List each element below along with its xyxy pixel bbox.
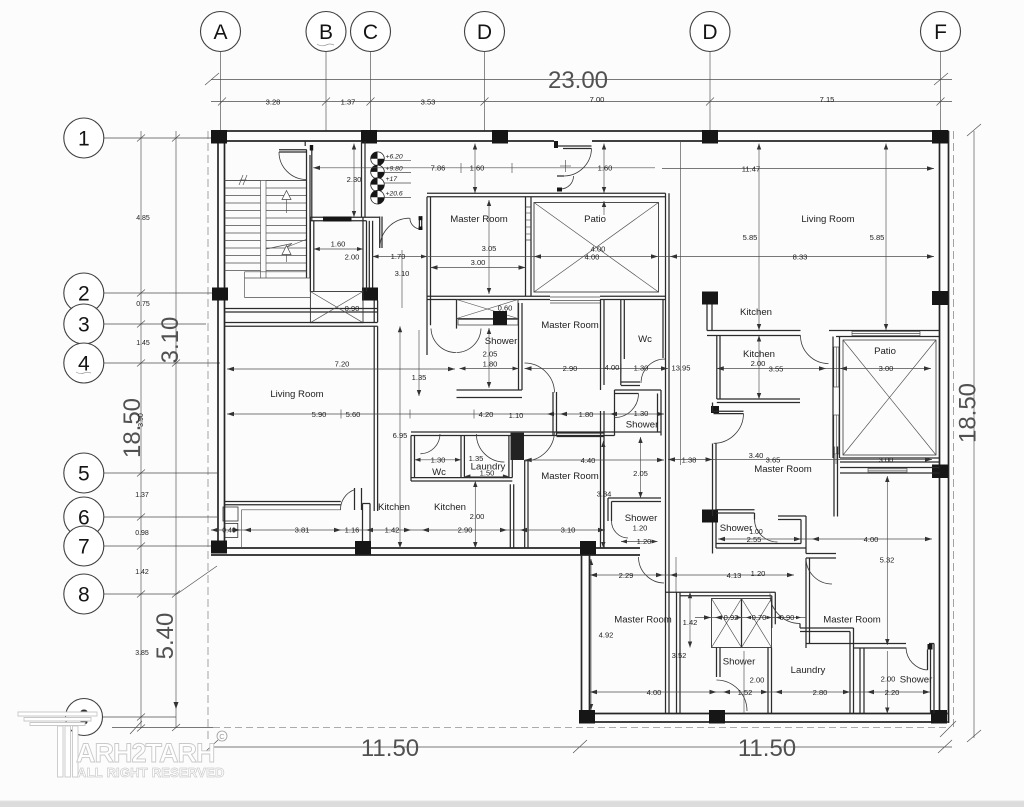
svg-text:11.50: 11.50 [361,735,419,762]
svg-text:Shower: Shower [900,675,933,686]
svg-text:+9.80: +9.80 [386,166,403,173]
svg-text:Shower: Shower [723,657,756,668]
dim 3.05 vertical master2 [482,200,497,294]
diagonal break line near row 8 [177,566,217,594]
living room bottom wall [225,502,341,505]
dim 7.20 [227,360,455,372]
svg-text:1.35: 1.35 [469,454,484,463]
laundry2 door arc [770,594,800,624]
grid bubble F at x=940.5 [921,12,961,132]
shower top-right room (614-661) [615,390,662,436]
svg-text:1.60: 1.60 [331,240,346,249]
svg-text:Wc: Wc [638,334,652,345]
svg-text:2: 2 [78,283,90,306]
svg-text:18.50: 18.50 [119,398,146,458]
grid bubble C at x=370.5 [351,12,391,132]
svg-text:Patio: Patio [874,346,896,357]
svg-text:4.85: 4.85 [136,215,150,222]
dim 2.00/3.55 kitchen right-unit [717,359,931,374]
svg-text:1.42: 1.42 [385,526,400,535]
shaft side wall right [369,221,377,322]
grid bubble 3 at y=324 [64,304,206,344]
svg-text:1.45: 1.45 [136,340,150,347]
stair treads right flight [266,181,307,271]
column D2-1 [702,130,718,144]
elevator door sill [323,217,352,222]
dim 1.42 vertical [683,592,698,647]
hall/stair separation wall x=363 [362,141,366,217]
column C1 [361,130,377,144]
dim 5.32 vertical [880,476,895,645]
svg-text:5.32: 5.32 [880,556,895,565]
svg-text:1.20: 1.20 [633,523,648,532]
patio2 bottom walls with window [840,458,940,473]
svg-text:3.65: 3.65 [766,455,781,464]
dim 1.30 wc left [415,455,462,464]
shower3 (right) walls [860,644,934,714]
exterior left wall [218,131,225,547]
svg-text:3.34: 3.34 [597,490,612,499]
svg-text:5.60: 5.60 [346,410,361,419]
svg-text:D: D [477,21,492,44]
grid bubble 8 at y=594 [64,574,177,614]
left dim values 1.37 / 0.98 / 1.42 / 3.85 [135,492,149,657]
dim 2.30 vertical [347,144,362,218]
dim chain 0.92/0.70/0.90 y=617.5 [695,613,806,622]
dim 3.52 vertical [672,557,687,660]
svg-text:Master Room: Master Room [614,615,672,626]
stair stringers [225,181,307,279]
stair treads left flight [225,181,261,271]
svg-text:3.55: 3.55 [769,365,784,374]
svg-text:Master Room: Master Room [541,320,599,331]
svg-text:2.05: 2.05 [633,469,648,478]
svg-text:2.55: 2.55 [747,535,762,544]
dim chain y=368 master3: 2.90/4.00/1.30/13.95 [525,363,691,373]
entry second leaf arc [557,160,574,192]
svg-text:Shower: Shower [720,523,753,534]
svg-text:1.70: 1.70 [391,252,406,261]
svg-text:3.10: 3.10 [395,269,410,278]
dim 4.92 vertical [589,559,614,710]
svg-text:7.00: 7.00 [590,95,605,104]
dim 1.35 vertical hall [412,330,427,396]
svg-text:Kitchen: Kitchen [378,502,410,513]
grid bubble 1 at y=138 [64,118,218,158]
dim 2.00 vertical kitchen right-unit [757,336,761,400]
dashed column axis line x=208 [207,131,209,743]
dim 2.00 vertical kitchen2 [470,481,485,548]
svg-text:7.15: 7.15 [820,95,835,104]
column FB [931,710,947,724]
svg-text:ARH2TARH: ARH2TARH [76,738,215,768]
svg-text:4.00: 4.00 [585,252,600,261]
dim 1.70 hall [373,252,427,261]
grid bubble 7 at y=546 [64,526,211,566]
shower-bottom room (608-661) [608,498,661,538]
master-bottom top wall [557,433,605,437]
master room 2 top wall [427,193,666,196]
lower-left master right wall [677,592,681,713]
svg-text:Wc: Wc [432,467,446,478]
left dim values 4.85 / 0.75 / 1.45 [136,215,150,347]
laundry2 right wall [850,628,854,714]
svg-text:1.37: 1.37 [135,492,149,499]
stair door leaf and swing [279,150,307,180]
patio2 top wall with window [836,331,940,337]
svg-text:2.00: 2.00 [345,253,360,262]
stair direction zigzag [266,240,306,250]
svg-text:4.00: 4.00 [605,363,620,372]
shower2 door arc [717,680,748,711]
double door arcs into shower corridor [431,329,481,353]
svg-text:4.40: 4.40 [581,456,596,465]
kitchen right-unit top wall [707,331,836,336]
svg-text:1.30: 1.30 [431,455,446,464]
dim 5.85 vertical pair (living room) [743,144,889,331]
column D1 [492,130,508,144]
svg-text:Living Room: Living Room [270,389,323,400]
shower-top room walls (456-521) [457,300,523,398]
column LL [580,541,596,555]
dim 6.95 vertical [393,326,408,548]
window in patio left wall [526,207,532,240]
svg-text:1.60: 1.60 [598,164,613,173]
patio2 X box [843,340,936,455]
svg-text:1: 1 [78,128,90,151]
svg-text:Kitchen: Kitchen [740,307,772,318]
svg-text:1.35: 1.35 [412,373,427,382]
svg-text:1.50: 1.50 [480,468,495,477]
master room 2 bottom wall [427,296,666,299]
svg-text:2.00: 2.00 [470,512,485,521]
svg-text:1.38: 1.38 [682,455,697,464]
entry door leaf [563,146,592,149]
stair right wall [307,150,311,278]
annotation under bubble B [317,44,334,46]
svg-text:3.10: 3.10 [561,526,576,535]
master-right left wall [806,558,810,648]
bottom gray bar [0,801,1024,807]
svg-text:7.86: 7.86 [431,164,446,173]
dim 1.60 vertical at x=604 [602,144,606,216]
annotation under bubble 4 [76,372,91,374]
svg-text:Master Room: Master Room [450,214,508,225]
svg-text:0.75: 0.75 [136,301,150,308]
kitchen2 right wall [510,484,513,548]
master-bottom right wall [601,411,605,548]
svg-text:ALL RIGHT RESERVED: ALL RIGHT RESERVED [77,765,225,780]
column D-mid [702,510,718,523]
dim 1.35/1.50 laundry left [464,454,509,478]
svg-text:4.13: 4.13 [727,571,742,580]
svg-text:2.00: 2.00 [751,359,766,368]
dim chain 4.00/1.52/2.80/2.20 y=692 [590,688,930,697]
dim 3.00 horizontal master2 [431,258,526,270]
column A1 [211,130,227,144]
svg-text:0.70: 0.70 [752,613,767,622]
svg-text:+6.20: +6.20 [386,154,403,161]
svg-text:3.52: 3.52 [672,651,687,660]
svg-text:2.05: 2.05 [483,350,498,359]
dim 3.40/3.65/1.38/3.00 line y=459 [668,451,932,464]
svg-text:1.30: 1.30 [634,409,649,418]
entry door swing arc [564,149,592,177]
lower wing left exterior wall [582,548,590,722]
column F1 [932,130,948,144]
kitchen-left interior lines [242,510,341,548]
grid bubble 9 (behind logo) [66,699,177,736]
shower mid-right room walls [713,523,837,559]
bottom dashed setback line [112,721,956,737]
lower wing bottom exterior wall [582,714,948,723]
svg-text:B: B [319,21,333,44]
dim 1.20/1.20 shower bottom-left [621,523,658,546]
svg-text:8.33: 8.33 [793,252,808,261]
column A7 [211,541,227,554]
dim 1.60 elevator [314,240,363,251]
svg-text:7.20: 7.20 [335,360,350,369]
column F-mid [932,465,948,479]
dim 2.00 vertical shower3 [881,651,896,714]
svg-text:F: F [934,21,947,44]
svg-text:3.81: 3.81 [295,526,310,535]
dim 3.34 vertical [597,441,612,548]
dim chain row7 y=530 [211,526,605,535]
dim 2.05/1.80 shower top-left [460,328,519,388]
patio 1 box with X [534,203,659,293]
svg-text:5.85: 5.85 [870,233,885,242]
grid bubble 4 at y=363 [64,343,220,383]
master right-top left wall + door [713,403,744,517]
shower corridor pillar (dark) [511,433,525,460]
master-bottom doorway leaves + arcs [525,363,557,461]
stair up arrow 2 [282,246,291,263]
patio door sill [550,297,600,303]
dim 4.00/8.33 line y=256 [428,245,934,262]
closet with X and black square [457,300,519,326]
stair break marks [239,175,247,185]
dimension chain 3.28/1.37/3.53/7.00/7.15 [211,95,952,107]
wc top room walls [621,300,665,386]
dim 3.10 hall vertical [395,250,410,308]
svg-text:C: C [219,732,225,741]
svg-text:0.92: 0.92 [724,613,739,622]
svg-text:Shower: Shower [626,420,659,431]
svg-text:C: C [363,21,378,44]
grid bubble 5 at y=473 [64,453,217,493]
svg-text:Master Room: Master Room [541,471,599,482]
corner black stub [711,406,719,413]
wall between master right-top and patio2 [834,447,838,517]
svg-text:1.42: 1.42 [135,569,149,576]
svg-text:1.20: 1.20 [751,569,766,578]
svg-text:2.80: 2.80 [813,688,828,697]
master-right door leaf + arc [906,648,931,671]
grid bubble D at x=710 [690,12,730,132]
master room 2 right wall / patio left wall [526,197,532,297]
svg-text:11.47: 11.47 [742,164,760,173]
dim line 11.47 [662,164,934,173]
kitchen counter boxes [223,507,238,537]
svg-text:4.00: 4.00 [647,688,662,697]
svg-text:+17: +17 [386,176,398,183]
column DB [709,710,725,724]
stair landing [245,272,311,298]
grid bubble D at x=484.5 [465,12,505,132]
lower wing entry door [639,557,665,583]
svg-text:5.85: 5.85 [743,233,758,242]
stair enclosure bottom wall [225,309,378,313]
svg-text:1.80: 1.80 [579,410,594,419]
column A2 [212,288,228,301]
svg-text:7: 7 [78,536,90,559]
master room 2 left wall [427,197,431,355]
master3 right wall [601,300,605,391]
svg-text:0.98: 0.98 [135,530,149,537]
svg-text:4.20: 4.20 [479,410,494,419]
shower2 room walls [717,648,772,714]
svg-text:Master Room: Master Room [754,464,812,475]
svg-text:1.80: 1.80 [483,359,498,368]
svg-text:+20.6: +20.6 [386,191,403,198]
hall wall x=312 [311,151,313,222]
logo copyright symbol [217,731,227,741]
svg-text:8: 8 [78,584,90,607]
svg-text:5.40: 5.40 [152,613,179,660]
wc room left unit [411,434,464,481]
kitchen door arc right-unit [801,336,829,364]
level marker symbols +6.20/+9.80/+17/+20.6 [371,152,411,204]
dim line 7.86 / 1.60 horizontal [313,163,655,173]
svg-text:0.40: 0.40 [222,528,236,535]
svg-text:1.60: 1.60 [470,164,485,173]
svg-text:3.90: 3.90 [138,413,145,427]
svg-text:13.95: 13.95 [671,364,690,373]
svg-text:2.00: 2.00 [750,676,765,685]
central band walls [666,592,776,628]
svg-text:3: 3 [78,314,90,337]
row-3 wall (living room top) [225,323,378,327]
door frame stub top wall [305,141,313,151]
svg-text:Master Room: Master Room [823,615,881,626]
svg-text:3.10: 3.10 [157,317,184,364]
left dim chain line x=141 with row ticks [137,131,145,732]
living room door leaf and arc [340,488,361,510]
column LB [579,710,595,724]
svg-text:2.90: 2.90 [563,364,578,373]
svg-text:3.40: 3.40 [749,451,764,460]
column C2 [362,288,378,301]
svg-text:0.90: 0.90 [345,304,360,313]
svg-text:1.42: 1.42 [683,618,698,627]
kitchen partition wall x=376 [374,326,377,511]
kitchen bottom wall right-unit [717,399,800,403]
hall double door leaves and arcs [380,216,423,248]
svg-text:0.60: 0.60 [498,304,513,313]
wall stub above column C7 [363,504,371,542]
svg-text:6.95: 6.95 [393,431,408,440]
master-right entry door arc [806,558,832,584]
svg-text:4.00: 4.00 [864,535,879,544]
svg-text:18.50: 18.50 [955,383,982,443]
svg-text:Kitchen: Kitchen [434,502,466,513]
svg-text:3.00: 3.00 [471,258,486,267]
grid bubble 6 at y=517 [64,497,217,537]
logo pillar icon [18,712,97,777]
svg-text:Patio: Patio [584,214,606,225]
patio2 left wall with windows [833,337,840,459]
master-right bottom wall with door [806,644,934,650]
entry door frame stub [554,141,563,148]
svg-text:2.00: 2.00 [881,675,896,684]
dim 2.00 vertical shower2 [744,651,764,714]
exterior top wall [211,131,949,141]
svg-text:1.16: 1.16 [345,526,360,535]
dim 2.05 vertical corridor [633,437,648,498]
dim chain 5.90/5.60/4.20/1.10/1.80/1.30 y=414 [227,409,664,420]
dimension line 23.00 (overall width) [205,67,952,94]
thin boundary line x=680.5 [680,141,682,465]
svg-text:1.20: 1.20 [637,537,652,546]
svg-text:Shower: Shower [485,336,518,347]
stair up arrow 1 [282,191,291,214]
dim 1.60 vertical at x=475 [473,144,477,194]
left dim chain line x=176 [172,131,180,731]
shaft2 boxes with X [712,599,772,648]
svg-text:5: 5 [78,463,90,486]
exterior right wall [940,131,954,728]
svg-text:3.00: 3.00 [879,364,894,373]
laundry2 top wall [800,624,854,632]
dim chain 2.29/4.13/1.20 y=575 [590,569,794,580]
svg-text:3.53: 3.53 [421,97,436,106]
svg-text:2.90: 2.90 [458,526,473,535]
svg-text:Laundry: Laundry [791,665,826,676]
elevator shaft walls [310,217,379,291]
svg-text:3.28: 3.28 [266,97,281,106]
column D2-2 [702,292,718,305]
laundry room left unit [411,434,512,481]
dimension 11.50 left [204,735,580,762]
svg-text:D: D [702,21,717,44]
svg-text:Kitchen: Kitchen [743,349,775,360]
dimension 11.50 right [573,735,952,762]
dim 4.40 [525,456,664,465]
row-7 exterior wall (bottom of upper wing) [211,548,640,555]
svg-text:1.00: 1.00 [749,529,763,536]
corridor wall x=666 [666,193,670,713]
svg-text:2.29: 2.29 [619,571,634,580]
elevator pit box with X [310,292,363,323]
dim 2.55/4.00 line y=539 [718,535,932,544]
right dim line 18.50 [955,124,982,742]
svg-text:23.00: 23.00 [548,67,608,94]
svg-text:4.92: 4.92 [599,631,614,640]
master right-top bottom stepped wall [716,510,806,544]
master-bottom left wall [525,460,528,548]
svg-text:11.50: 11.50 [738,735,796,762]
svg-text:3.85: 3.85 [135,650,149,657]
svg-text:1.10: 1.10 [509,411,524,420]
column C7 [355,541,371,555]
wall stub below column D2-2 [707,305,712,331]
svg-text:3.00: 3.00 [879,455,894,464]
svg-text:1.37: 1.37 [341,98,356,107]
svg-text:0.90: 0.90 [780,613,795,622]
svg-text:A: A [213,21,227,44]
svg-text:2.20: 2.20 [885,688,900,697]
